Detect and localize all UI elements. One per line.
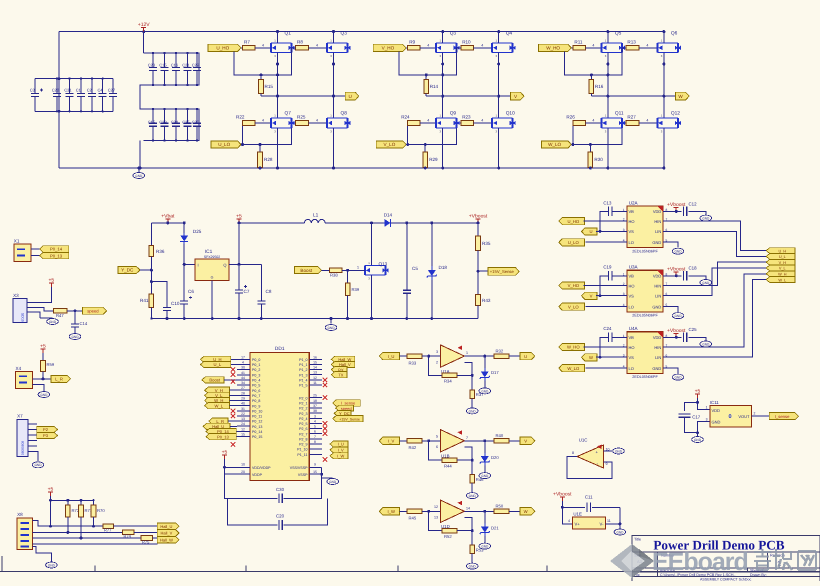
title block [632,535,820,581]
resistor R28 [259,145,261,153]
wire DD1 VSS to GND [321,467,323,478]
wire U1C feedback loop [567,457,612,479]
capacitor C6 [183,287,185,301]
power port +Vbat [167,219,169,223]
svg-text:4: 4 [262,119,264,123]
svg-text:P0_14: P0_14 [252,430,262,434]
svg-text:R70: R70 [97,508,105,513]
flag U_LO (driver) [559,239,585,246]
flag speed [83,307,107,314]
capacitor C12 [682,206,684,216]
svg-text:HIN: HIN [654,219,661,224]
svg-text:1: 1 [706,406,708,410]
svg-text:C17: C17 [692,414,701,419]
resistor R37 [471,375,473,389]
power port +Vboost (driver) [663,210,682,212]
resistor R38 [322,269,330,271]
wire LO row [585,367,627,369]
svg-text:GND: GND [48,563,56,567]
svg-text:4: 4 [646,119,648,123]
flag V_HO [373,44,406,51]
svg-text:Q10: Q10 [506,111,515,117]
wire HO row [584,346,627,348]
svg-text:C30: C30 [276,487,285,492]
svg-text:4: 4 [646,43,648,47]
svg-text:C7: C7 [244,289,250,294]
svg-text:Q: Q [223,262,226,267]
svg-text:C31: C31 [64,88,72,93]
svg-text:+Vboost: +Vboost [469,213,488,219]
svg-text:D17: D17 [491,370,499,375]
svg-text:VS: VS [629,294,635,299]
svg-text:2EDL05N06PF: 2EDL05N06PF [632,249,658,253]
svg-text:W: W [589,355,593,360]
wire Q source column to phase [607,53,609,119]
wire VS row [596,356,627,358]
svg-text:3: 3 [314,414,316,418]
capacitor C2 [91,79,93,94]
svg-text:4: 4 [592,43,594,47]
svg-text:P2_1: P2_1 [299,401,307,405]
svg-text:R35: R35 [482,241,491,246]
resistor R15 [260,75,262,80]
wire phase node [261,95,345,97]
svg-text:U_L: U_L [214,362,222,367]
wire +5 rail to L1 [239,222,304,224]
svg-text:5: 5 [314,425,316,429]
diode D17 zener [484,356,486,368]
svg-text:VB: VB [629,335,635,340]
ground GND psu [330,317,333,320]
flag X7 b [37,433,58,439]
transistor Q13 [371,223,373,266]
svg-text:SD020: SD020 [21,313,25,323]
svg-text:VSS/VSSP: VSS/VSSP [290,466,308,470]
svg-text:I_U: I_U [388,354,395,359]
resistor R40 [494,439,509,444]
wire LO row [585,306,627,308]
resistor R52 [442,528,457,533]
svg-text:34: 34 [241,381,245,385]
wire Q3 drain [442,32,444,43]
capacitor C25 [682,332,684,342]
resistor R9 [406,47,408,49]
ground GND (op-amp divider) [466,408,478,414]
wire high-side feedback loop [564,48,626,75]
svg-text:C34: C34 [171,119,179,124]
svg-text:C6: C6 [188,289,194,294]
diode D25 [183,223,185,233]
svg-text:P2_9: P2_9 [299,443,307,447]
resistor R53 [471,531,473,545]
EEboard watermark logo [610,544,748,578]
capacitor C15 [164,53,166,68]
svg-text:1: 1 [357,266,359,270]
svg-text:6: 6 [436,445,438,449]
wire IC11 out [752,415,770,417]
power port +5 (IC11) [697,394,699,398]
svg-text:Q7: Q7 [285,111,292,117]
svg-text:P0_8: P0_8 [252,399,260,403]
svg-text:I: I [198,262,199,267]
wire Q5 drain [607,32,609,43]
flag L_R (DD1) [209,418,228,424]
svg-text:U_LO: U_LO [218,142,230,147]
svg-text:+15V_Sense: +15V_Sense [490,269,515,274]
svg-text:W: W [524,509,528,514]
svg-text:Q8: Q8 [341,111,348,117]
op-amp U1C [577,445,604,468]
svg-text:GND: GND [694,438,702,442]
svg-text:C15: C15 [148,119,156,124]
ground GND (driver gnd pin) [663,368,678,373]
power port +5 (DD1) [224,455,226,459]
svg-text:C22: C22 [192,62,200,67]
svg-text:VB: VB [629,209,635,214]
svg-text:15: 15 [313,360,317,364]
resistor R77 [103,524,114,529]
wire high-side feedback loop [399,48,461,75]
resistor R46 [471,460,473,474]
wire low mosfet source columns [442,128,444,168]
flag W (driver VS) [582,354,597,361]
svg-text:GND: GND [135,174,143,178]
svg-text:VS: VS [629,355,635,360]
svg-text:C1: C1 [76,88,82,93]
svg-text:30: 30 [241,366,245,370]
svg-text:C8: C8 [266,289,272,294]
flag I_V (DD1 right) [330,447,348,453]
svg-text:W_LO: W_LO [567,366,580,371]
svg-text:R8: R8 [297,40,303,45]
svg-text:C29: C29 [159,119,167,124]
flag Boost (DD1) [202,377,224,383]
flag W_HO (driver) [559,343,585,350]
svg-text:4: 4 [242,360,244,364]
power port +5 (X4) [42,349,44,353]
ground GND (X7) [37,452,38,462]
IC DD1 microcontroller [250,352,309,480]
svg-text:P3: P3 [43,433,49,438]
wire HO row [584,220,627,222]
svg-text:R30: R30 [594,157,603,162]
resistor R72 [67,500,69,505]
wire X4 pin to L_R [33,378,51,380]
svg-text:GND: GND [652,304,661,309]
svg-text:V+: V+ [575,522,581,527]
ground GND (driver vdd cap) [688,276,705,280]
svg-text:C13: C13 [603,200,612,205]
svg-text:R45: R45 [409,516,417,521]
svg-text:R15: R15 [265,84,274,89]
wire VS row [596,230,627,232]
IC U1E opamp power pins [573,517,606,529]
wire IC1 ground pin [211,281,213,319]
svg-text:VOUT: VOUT [738,414,750,419]
svg-text:Q11: Q11 [615,111,624,117]
capacitor C21 [187,53,189,68]
svg-text:V_L: V_L [779,267,786,271]
svg-text:VDD: VDD [653,274,662,279]
svg-text:4: 4 [314,419,316,423]
svg-text:4: 4 [316,119,318,123]
ground GND (DD1) [322,477,333,479]
svg-text:13: 13 [434,516,438,520]
svg-text:GND: GND [71,335,79,339]
svg-text:P0_7: P0_7 [252,394,260,398]
svg-text:1: 1 [466,351,468,355]
resistor R44 [442,458,457,463]
svg-text:13: 13 [241,417,245,421]
svg-text:16: 16 [313,355,317,359]
svg-text:28: 28 [241,391,245,395]
flag TX (DD1 right) [331,372,347,378]
ground GND (zener) [479,543,491,549]
svg-text:4: 4 [568,519,570,523]
svg-text:LIN: LIN [655,294,661,299]
svg-text:GND: GND [481,545,489,549]
ground GND (op-amp divider) [466,563,478,569]
diode D14 [383,222,386,224]
resistor R7 [241,47,243,49]
svg-text:C25: C25 [689,327,698,332]
svg-text:U_L: U_L [779,255,786,259]
resistor R59 [42,353,44,361]
svg-text:2EDL05N06PF: 2EDL05N06PF [632,314,658,318]
svg-text:P1_2: P1_2 [299,368,307,372]
svg-text:HO: HO [629,345,635,350]
wire low mosfet source columns [277,128,279,168]
svg-text:D20: D20 [491,455,499,460]
svg-text:R28: R28 [264,157,273,162]
svg-text:4: 4 [481,119,483,123]
svg-text:W_H: W_H [778,273,787,277]
wire phase node [426,95,510,97]
wire bottom GND rail [59,167,664,169]
svg-text:P0_9: P0_9 [252,404,260,408]
capacitor C11 [562,506,585,508]
capacitor C27 [112,79,114,94]
svg-text:R42: R42 [409,445,417,450]
svg-text:U3A: U3A [629,265,639,270]
svg-text:C23: C23 [148,62,156,67]
IC U4A gate driver [627,332,663,374]
svg-text:11: 11 [607,519,611,523]
transistor Q12 [657,118,678,128]
resistor R30 [589,145,591,153]
resistor R14 [425,75,427,80]
svg-text:38: 38 [313,409,317,413]
svg-text:VSSP: VSSP [298,473,308,477]
flag Y_DC (DD1 right) [334,410,351,416]
flag P0_13 (DD1) [206,434,236,440]
svg-text:R22: R22 [236,115,245,120]
svg-text:R10: R10 [462,40,471,45]
svg-text:VDDP: VDDP [252,473,263,477]
svg-text:I_W: I_W [337,454,344,459]
svg-text:P0_14: P0_14 [50,247,63,252]
svg-text:R77: R77 [104,528,112,533]
svg-text:22: 22 [241,412,245,416]
wire op-amp output [464,355,494,357]
svg-text:W_HO: W_HO [546,46,560,51]
ground GND (U1C) [613,448,625,454]
svg-text:C16: C16 [171,62,179,67]
svg-text:P0_3: P0_3 [252,373,260,377]
resistor R71 [80,500,82,505]
wire cap bank 1 rails [35,78,113,80]
svg-text:GND: GND [616,530,624,534]
svg-text:P2_3: P2_3 [299,412,307,416]
svg-text:Q13: Q13 [379,262,388,267]
capacitor C4 [102,79,104,94]
wire feedback [429,356,443,375]
svg-text:GND: GND [652,366,661,371]
svg-text:2: 2 [754,412,756,416]
svg-text:R13: R13 [627,40,636,45]
ground GND (X3 pin) [40,317,53,319]
connector X3 [13,299,27,323]
svg-text:13: 13 [313,371,317,375]
transistor Q7 [271,118,292,128]
svg-text:P0_13: P0_13 [252,425,262,429]
svg-text:GND: GND [652,240,661,245]
svg-text:C12: C12 [689,201,698,206]
svg-text:C19: C19 [603,265,612,270]
svg-text:U_H: U_H [778,249,786,253]
svg-text:R47: R47 [56,313,64,318]
wire HO row [584,285,627,287]
wire U1E V- to GND [606,507,620,524]
wire IC1 output to +5 [229,263,261,265]
flag Hall_U (DD1) [203,423,230,429]
wire R36 to R41 column [150,257,152,294]
wire VS row [596,295,627,297]
svg-text:U2A: U2A [629,200,639,205]
svg-text:4: 4 [592,119,594,123]
wire op-amp output [464,440,494,442]
resistor R74 [122,530,134,535]
wire pullup rail [50,496,52,526]
capacitor C23 [152,53,154,68]
svg-text:R27: R27 [627,115,636,120]
svg-text:P1_5: P1_5 [299,384,307,388]
svg-text:L_R: L_R [55,377,63,382]
svg-text:Q3: Q3 [341,31,348,37]
flag P0_14 (X1) [40,246,69,252]
flag U_L (DD1) [201,361,231,367]
DD1 left pins P0_0..P0_15 [237,358,250,360]
svg-text:Q5: Q5 [615,31,622,37]
power port +12V [142,30,145,33]
wire low-side gate net [406,123,461,145]
svg-text:V_LO: V_LO [568,304,579,309]
svg-text:14: 14 [313,366,317,370]
capacitor C14 [74,311,76,318]
svg-text:P2_7: P2_7 [299,432,307,436]
svg-text:C24: C24 [603,326,612,331]
svg-text:W_L: W_L [778,278,786,282]
flag V_LO [376,141,406,148]
capacitor C5 [406,223,408,265]
wire IC11 vdd loop [698,398,710,410]
resistor R45 [400,510,407,512]
svg-text:C5: C5 [412,266,418,271]
svg-text:U: U [589,229,592,234]
flag +15V Sense [477,251,479,295]
svg-text:17: 17 [241,355,245,359]
svg-text:P2_0: P2_0 [299,396,307,400]
svg-text:R59: R59 [47,362,55,367]
flag V_HO (driver) [559,282,585,289]
DD1 power pins [237,466,250,468]
power port +5 (X3) [50,283,52,287]
resistor R33 [400,355,407,357]
capacitor C1 [80,79,82,94]
flag +15V_Sense (DD1 right) [333,416,363,422]
transistor Q5 [601,43,622,53]
op-amp U1A [440,345,464,367]
svg-text:GND: GND [674,376,682,380]
svg-text:+12V: +12V [138,22,150,28]
svg-text:VDD/VDDP: VDD/VDDP [252,466,271,470]
wire Q6 drain [663,32,665,43]
svg-text:I_W: I_W [387,509,394,514]
svg-text:V: V [590,294,593,299]
capacitor C22 [196,53,198,68]
svg-text:GND: GND [674,314,682,318]
svg-text:HO: HO [629,283,635,288]
svg-text:V_LO: V_LO [384,142,396,147]
svg-text:P0_12: P0_12 [252,420,262,424]
svg-text:+Vbat: +Vbat [161,213,175,219]
watermark chinese characters [754,549,816,570]
svg-text:Boost: Boost [209,378,221,383]
svg-text:C28: C28 [52,88,60,93]
power port +Vboost (driver) [663,336,682,338]
svg-text:11: 11 [313,381,317,385]
ground GND (X4) [33,385,44,391]
svg-text:TX: TX [338,372,343,377]
transistor Q11 [601,118,622,128]
resistor R29 [424,145,426,153]
resistor R8 [296,46,309,51]
svg-text:+Vboost: +Vboost [553,491,572,497]
svg-text:VB: VB [629,274,635,279]
flag RX (DD1 right) [331,367,347,373]
svg-text:+5: +5 [222,450,228,456]
svg-text:X1: X1 [14,239,20,244]
resistor R27 [626,121,639,126]
svg-text:D18: D18 [439,265,448,270]
svg-text:HO: HO [629,219,635,224]
flag Y_DC [118,267,140,274]
svg-text:4: 4 [427,43,429,47]
wire X8 ground [33,547,52,562]
svg-text:Q9: Q9 [450,111,457,117]
svg-text:P0_13: P0_13 [217,434,229,439]
ground GND (op-amp divider) [466,493,478,499]
flag W_LO [541,141,571,148]
flag I_U (op-amp input) [379,352,399,359]
svg-text:14: 14 [466,506,470,510]
resistor R16 [590,75,592,80]
wire cap bank 2 feed [143,32,145,53]
flag W_LO (driver) [559,365,585,372]
svg-text:40: 40 [241,402,245,406]
svg-text:P1_0: P1_0 [299,358,307,362]
power port +5 (regulator output) [238,223,240,265]
